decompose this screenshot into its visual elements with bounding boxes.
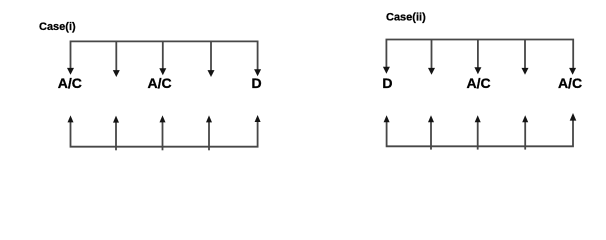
svg-text:A/C: A/C xyxy=(58,75,82,91)
svg-text:Case(i): Case(i) xyxy=(39,21,76,33)
svg-text:D: D xyxy=(382,75,392,91)
svg-text:A/C: A/C xyxy=(148,75,172,91)
svg-text:Case(ii): Case(ii) xyxy=(386,12,426,24)
svg-text:A/C: A/C xyxy=(467,75,491,91)
svg-text:A/C: A/C xyxy=(558,75,582,91)
svg-text:D: D xyxy=(251,75,261,91)
